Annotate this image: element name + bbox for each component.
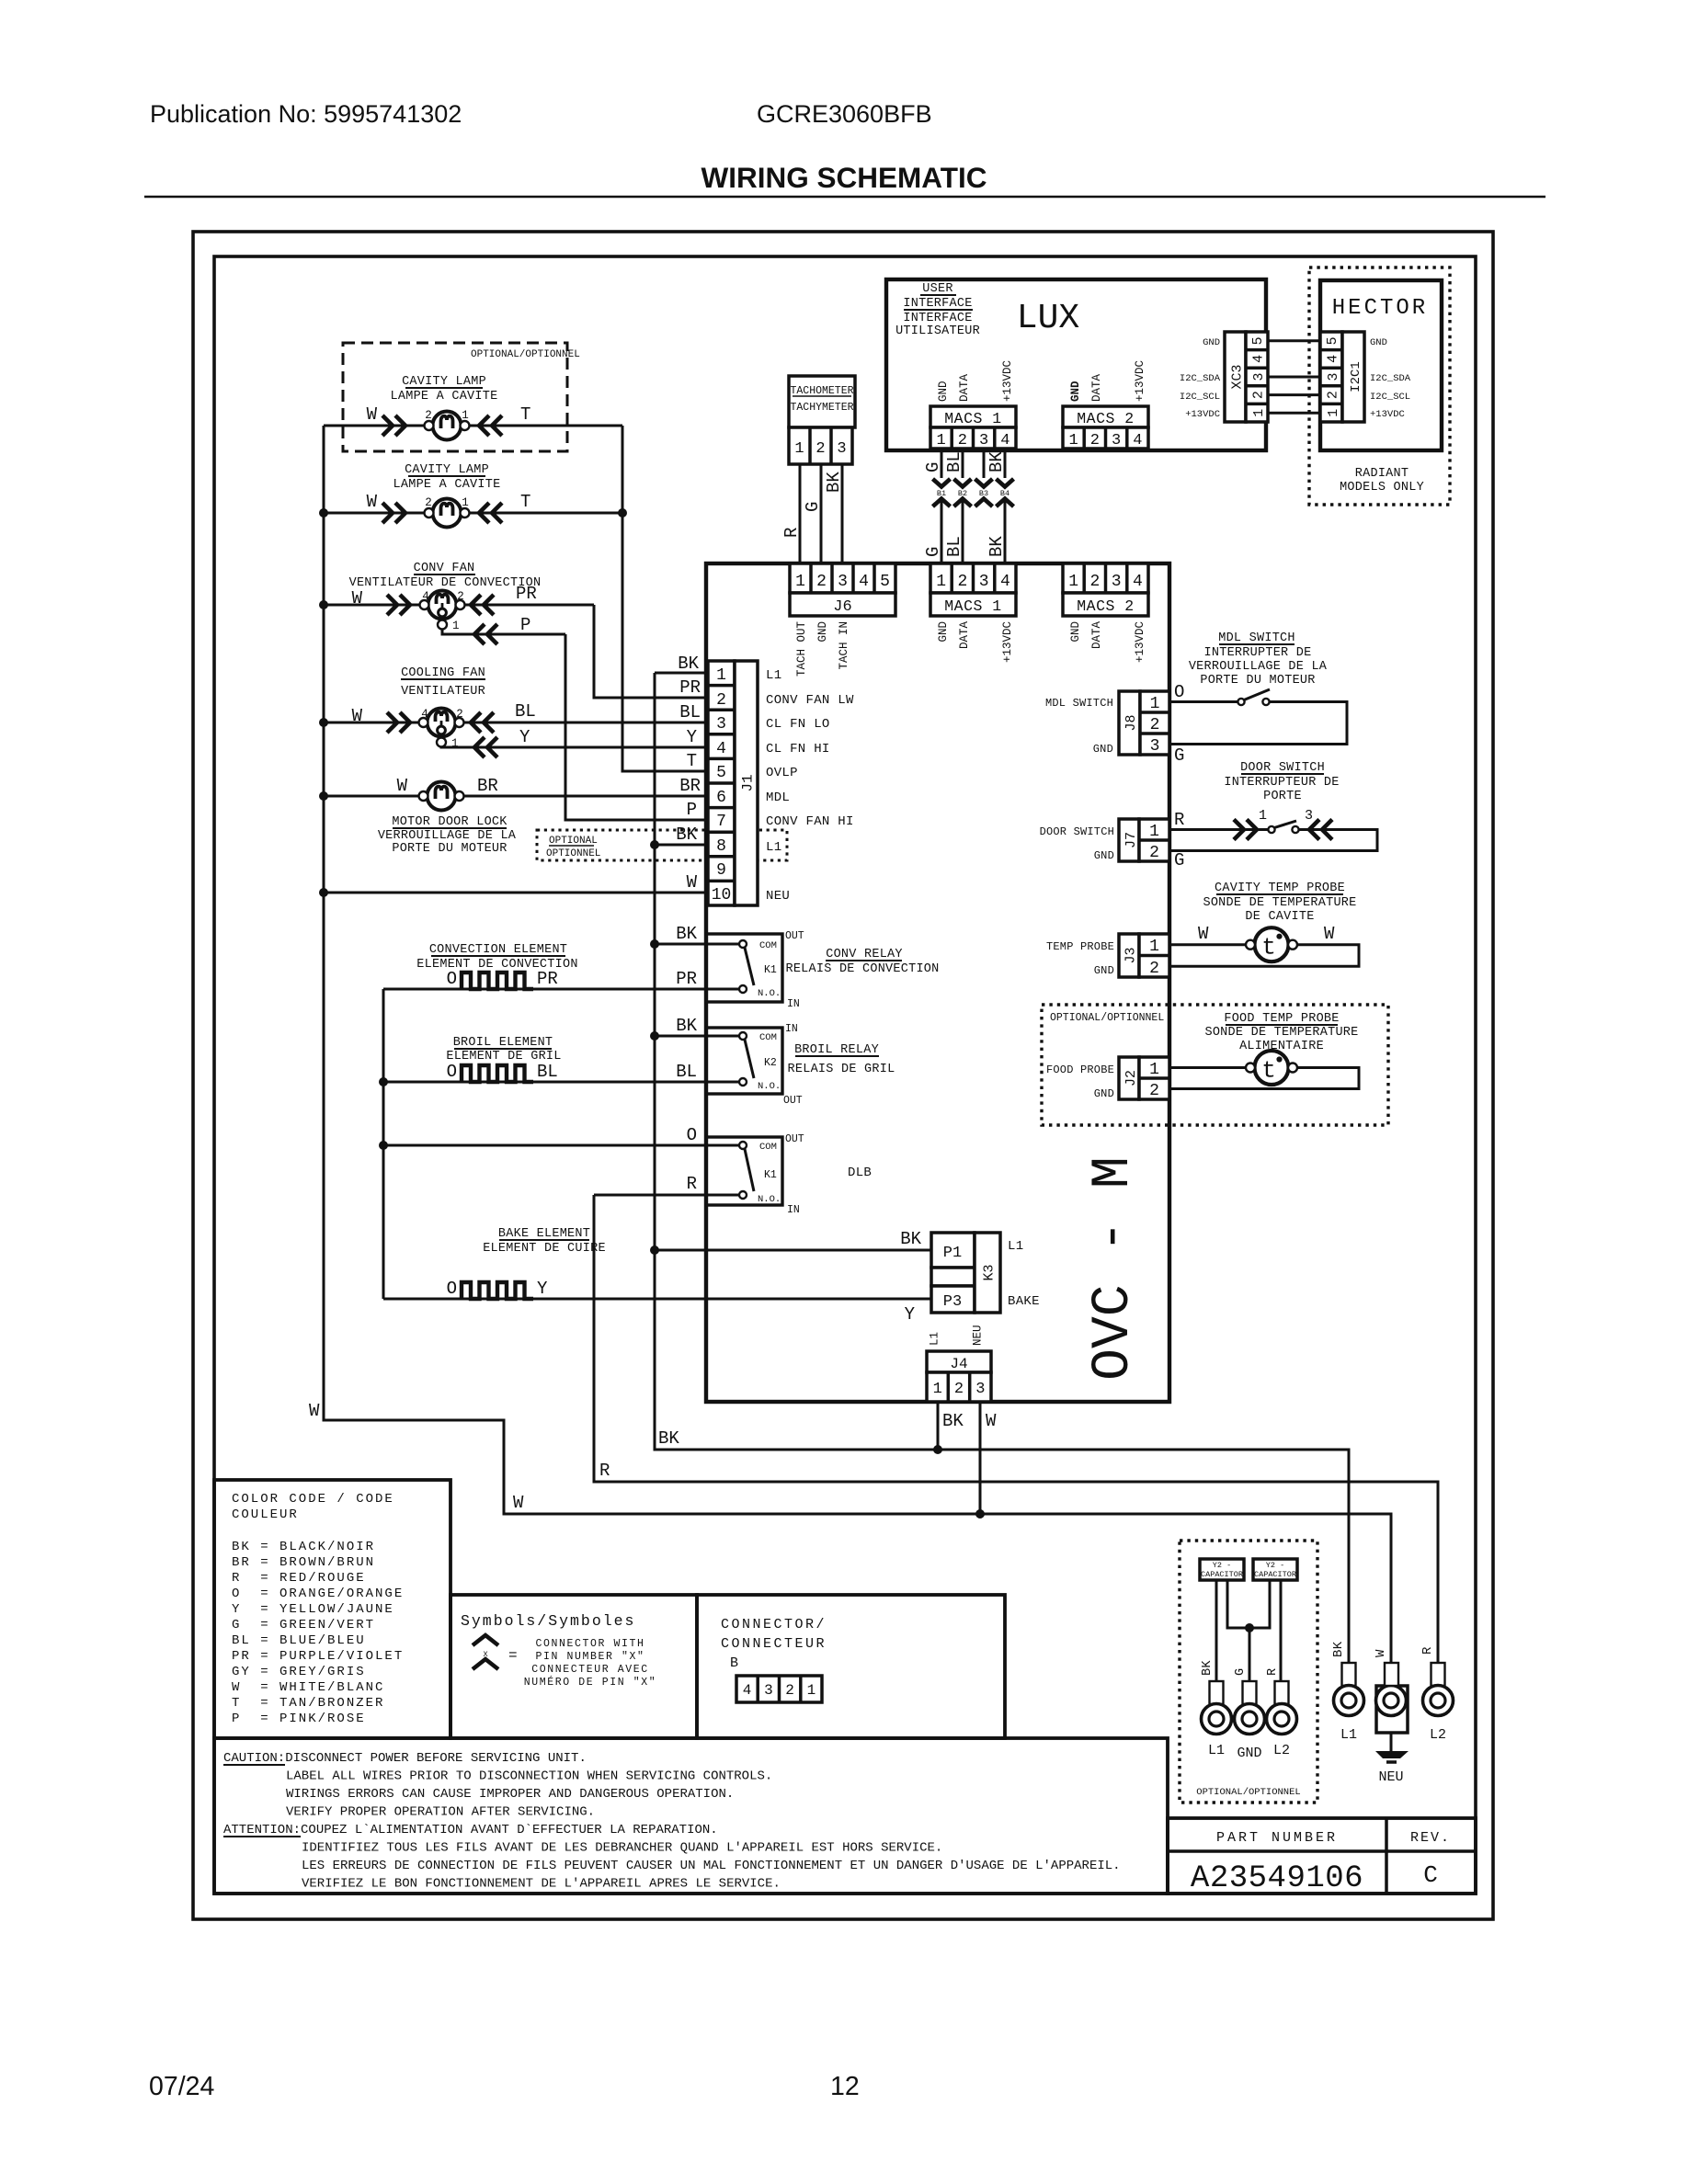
svg-text:1: 1 (1251, 409, 1267, 417)
node: T bus joins lamp2 (618, 508, 627, 518)
svg-text:OUT: OUT (785, 930, 804, 942)
ring terminal L1 (1334, 1663, 1364, 1743)
food probe optional dotted box (1042, 1005, 1388, 1125)
svg-text:G = GREEN/VERT: G = GREEN/VERT (232, 1618, 375, 1632)
bake element (447, 1279, 548, 1299)
svg-text:10: 10 (712, 886, 732, 904)
svg-text:NUMÉRO DE PIN "X": NUMÉRO DE PIN "X" (524, 1676, 657, 1689)
connector XC3 (1225, 332, 1268, 422)
svg-text:T: T (520, 492, 530, 512)
svg-text:HECTOR: HECTOR (1332, 296, 1428, 321)
cavity temp probe circuit (1169, 924, 1359, 966)
svg-text:MACS 2: MACS 2 (1077, 597, 1134, 615)
svg-text:4: 4 (1000, 573, 1010, 591)
svg-text:ATTENTION:COUPEZ L`ALIMENTATIO: ATTENTION:COUPEZ L`ALIMENTATION AVANT D`… (223, 1823, 718, 1837)
wire J4 pin1 BK drop (937, 1402, 940, 1450)
connector splice B2 (954, 479, 972, 506)
node: W bus joins conv fan (319, 600, 328, 609)
broil relay title (788, 1043, 895, 1076)
wire conv fan P lead (442, 625, 565, 634)
svg-text:6: 6 (716, 789, 726, 807)
svg-text:TACH OUT: TACH OUT (795, 621, 808, 677)
header rule (144, 196, 1545, 198)
svg-text:Y = YELLOW/JAUNE: Y = YELLOW/JAUNE (232, 1602, 394, 1617)
part number table (1168, 1818, 1476, 1896)
wire J4 pin3 W drop (979, 1402, 982, 1514)
svg-text:NEU: NEU (1378, 1769, 1403, 1785)
svg-text:GND: GND (1069, 621, 1082, 643)
svg-text:COLOR CODE / CODE: COLOR CODE / CODE (232, 1492, 394, 1507)
svg-text:P1: P1 (943, 1245, 962, 1262)
wires XC3 to I2C1 (1268, 341, 1320, 413)
connector J2 (1119, 1057, 1169, 1100)
svg-text:OUT: OUT (785, 1133, 804, 1145)
svg-text:K3: K3 (982, 1264, 998, 1280)
svg-text:DATA: DATA (958, 373, 971, 402)
svg-text:+13VDC: +13VDC (1370, 409, 1405, 420)
svg-text:BK: BK (824, 472, 844, 493)
svg-text:CONV FAN LW: CONV FAN LW (766, 693, 854, 708)
svg-text:OVC - M: OVC - M (1084, 1156, 1144, 1381)
svg-text:RELAIS DE CONVECTION: RELAIS DE CONVECTION (785, 962, 939, 976)
MACS1 lower pin labels (937, 621, 1014, 664)
inner border frame (214, 256, 1476, 1894)
svg-text:Publication No: 5995741302: Publication No: 5995741302 (150, 100, 462, 128)
connector J7 (1119, 819, 1169, 862)
svg-text:2: 2 (1250, 391, 1266, 399)
conv fan motor (352, 584, 537, 644)
symbols box (451, 1595, 697, 1738)
svg-text:3: 3 (716, 715, 726, 734)
capacitor Y2 no.1 (1200, 1559, 1244, 1580)
wire P drop to J1 pin7 (565, 634, 708, 820)
svg-text:Symbols/Symboles: Symbols/Symboles (461, 1612, 635, 1630)
svg-text:P = PINK/ROSE: P = PINK/ROSE (232, 1712, 366, 1726)
svg-text:Y: Y (687, 727, 698, 747)
svg-text:+13VDC: +13VDC (1134, 360, 1146, 402)
svg-text:GND: GND (937, 381, 950, 402)
svg-text:O: O (447, 1062, 457, 1082)
connector J6 (790, 563, 895, 616)
svg-text:MODELS ONLY: MODELS ONLY (1340, 481, 1424, 495)
svg-text:BROIL RELAY: BROIL RELAY (794, 1043, 879, 1057)
svg-text:I2C1: I2C1 (1349, 361, 1363, 392)
svg-text:USER: USER (922, 282, 952, 296)
svg-text:W: W (367, 492, 378, 512)
svg-text:W: W (367, 404, 378, 425)
svg-text:GND: GND (816, 621, 829, 643)
cavity lamp 1 title (391, 375, 498, 404)
MACS2 upper pin labels (1069, 360, 1146, 402)
connector I2C1 (1320, 332, 1364, 422)
wire cooling fan W + BL row (324, 722, 708, 724)
svg-text:LES ERREURS DE CONNECTION DE F: LES ERREURS DE CONNECTION DE FILS PEUVEN… (302, 1859, 1121, 1873)
svg-text:2: 2 (1089, 573, 1100, 591)
svg-text:A23549106: A23549106 (1191, 1861, 1363, 1896)
svg-text:8: 8 (716, 837, 726, 856)
svg-text:DATA: DATA (1090, 373, 1103, 402)
svg-text:2: 2 (957, 573, 967, 591)
svg-text:W: W (687, 872, 698, 893)
wire MACS1 splice pin3 (983, 449, 986, 478)
svg-text:W = WHITE/BLANC: W = WHITE/BLANC (232, 1680, 384, 1695)
svg-text:OPTIONNEL: OPTIONNEL (546, 848, 600, 859)
MACS2 lower pin labels (1069, 621, 1146, 664)
svg-text:CAVITY TEMP PROBE: CAVITY TEMP PROBE (1215, 882, 1345, 895)
J4 wire labels (942, 1411, 997, 1431)
svg-text:W: W (513, 1493, 524, 1513)
wire bake element row to K3 P3 (383, 1298, 931, 1301)
svg-text:OUT: OUT (783, 1095, 803, 1107)
svg-text:PR: PR (516, 584, 537, 604)
svg-text:2: 2 (785, 1682, 794, 1699)
svg-text:WIRING SCHEMATIC: WIRING SCHEMATIC (701, 161, 987, 194)
svg-text:+13VDC: +13VDC (1001, 621, 1014, 663)
svg-text:FOOD PROBE: FOOD PROBE (1046, 1064, 1114, 1076)
svg-text:TACHOMETER: TACHOMETER (790, 385, 853, 397)
svg-text:PIN NUMBER "X": PIN NUMBER "X" (535, 1651, 644, 1663)
wire conv relay COM BK (655, 943, 739, 946)
svg-text:2: 2 (1150, 716, 1160, 734)
svg-text:P: P (520, 615, 530, 635)
svg-text:CONNECTOR/: CONNECTOR/ (721, 1617, 827, 1632)
HECTOR dotted box (1309, 267, 1450, 505)
svg-text:X: X (483, 1650, 487, 1659)
svg-text:G: G (923, 462, 943, 472)
wires J6 to tachometer (800, 464, 842, 563)
svg-text:O: O (687, 1125, 697, 1145)
node: O bus to broil element (379, 1077, 388, 1086)
svg-text:W: W (309, 1401, 320, 1421)
conv relay wire labels (676, 924, 697, 989)
svg-text:Y2 -: Y2 - (1266, 1561, 1284, 1570)
J8 left labels (1045, 697, 1113, 756)
svg-text:BK = BLACK/NOIR: BK = BLACK/NOIR (232, 1540, 375, 1554)
svg-text:GND: GND (1094, 964, 1114, 977)
svg-text:J3: J3 (1123, 947, 1139, 963)
svg-text:5: 5 (880, 573, 890, 591)
tachometer box (789, 376, 855, 464)
svg-text:4: 4 (1133, 573, 1143, 591)
svg-text:RADIANT: RADIANT (1355, 467, 1409, 481)
svg-text:7: 7 (716, 813, 726, 831)
svg-text:1: 1 (936, 432, 945, 449)
svg-text:VERROUILLAGE DE LA: VERROUILLAGE DE LA (1189, 660, 1328, 674)
svg-text:1: 1 (716, 666, 726, 685)
svg-text:IN: IN (787, 1204, 800, 1216)
svg-text:1: 1 (794, 440, 804, 458)
broil element (447, 1062, 558, 1082)
wire MACS1 splice pin2 BL (962, 449, 964, 563)
wire PR drop to J1 pin2 (594, 605, 708, 698)
wire W neutral bus (left vertical) (324, 426, 1391, 1664)
svg-text:5: 5 (716, 764, 726, 782)
wire W bus to lamp1 (324, 425, 622, 427)
svg-text:J6: J6 (833, 598, 851, 616)
wire convection element row (383, 988, 739, 991)
svg-text:R: R (687, 1174, 697, 1194)
svg-text:IN: IN (787, 998, 800, 1010)
wire cooling fan Y lead (441, 742, 708, 747)
svg-text:BROIL ELEMENT: BROIL ELEMENT (453, 1036, 553, 1050)
svg-text:+13VDC: +13VDC (1134, 621, 1146, 663)
svg-text:RELAIS DE GRIL: RELAIS DE GRIL (788, 1063, 895, 1076)
svg-text:G: G (803, 502, 823, 512)
J3 left labels (1046, 940, 1114, 977)
svg-text:LABEL ALL WIRES PRIOR TO DISCO: LABEL ALL WIRES PRIOR TO DISCONNECTION W… (286, 1769, 772, 1784)
svg-text:ALIMENTAIRE: ALIMENTAIRE (1239, 1040, 1324, 1053)
svg-text:G: G (1174, 745, 1184, 766)
outer border frame (193, 232, 1493, 1919)
wire motor door lock row (324, 795, 708, 798)
svg-text:LUX: LUX (1017, 299, 1080, 338)
broil relay wire labels (676, 1016, 697, 1082)
svg-text:L2: L2 (1273, 1743, 1290, 1758)
svg-text:B: B (730, 1655, 741, 1671)
svg-text:L1: L1 (1340, 1727, 1357, 1743)
svg-text:4: 4 (859, 573, 869, 591)
connector J3 (1119, 934, 1169, 978)
svg-text:T: T (520, 404, 530, 425)
svg-text:2: 2 (815, 440, 825, 458)
svg-text:VERROUILLAGE DE LA: VERROUILLAGE DE LA (378, 829, 517, 843)
svg-text:INTERFACE: INTERFACE (903, 297, 972, 311)
svg-text:TACHYMETER: TACHYMETER (790, 402, 853, 414)
radiant models note (1340, 467, 1424, 495)
svg-text:MOTOR DOOR LOCK: MOTOR DOOR LOCK (392, 815, 508, 829)
node: BK bus to conv relay (650, 939, 659, 949)
wire K3 P1 BK (655, 1249, 931, 1252)
svg-text:T = TAN/BRONZER: T = TAN/BRONZER (232, 1696, 384, 1711)
svg-text:2: 2 (1149, 960, 1159, 978)
wire J1 pin10 W (324, 892, 708, 894)
svg-text:1: 1 (1326, 409, 1341, 417)
cooling fan title (401, 666, 485, 699)
svg-text:MDL: MDL (766, 791, 790, 805)
svg-text:GND: GND (1094, 1087, 1114, 1100)
svg-text:MACS 1: MACS 1 (944, 410, 1001, 427)
svg-text:L2: L2 (1430, 1727, 1446, 1743)
svg-text:1: 1 (451, 737, 459, 750)
svg-text:DE CAVITE: DE CAVITE (1245, 910, 1314, 924)
svg-text:DLB: DLB (848, 1166, 872, 1180)
svg-text:GND: GND (1370, 337, 1387, 348)
svg-text:COM: COM (759, 1142, 777, 1153)
svg-text:3: 3 (1112, 573, 1122, 591)
svg-text:COOLING FAN: COOLING FAN (401, 666, 485, 680)
svg-text:O = ORANGE/ORANGE: O = ORANGE/ORANGE (232, 1587, 404, 1601)
J6 under-board pin labels (795, 621, 850, 677)
optional dashed box around cavity lamp 1 (343, 343, 567, 451)
svg-text:CL FN LO: CL FN LO (766, 717, 830, 732)
svg-text:GND: GND (1094, 849, 1114, 862)
svg-text:PORTE DU MOTEUR: PORTE DU MOTEUR (392, 842, 507, 856)
cavity lamp 1 (367, 404, 531, 440)
R bus from DLB to L2 ring (594, 1195, 1438, 1664)
svg-text:R: R (781, 528, 802, 538)
cooling fan motor (352, 701, 536, 757)
svg-text:VERIFY PROPER OPERATION AFTER: VERIFY PROPER OPERATION AFTER SERVICING. (286, 1805, 595, 1820)
K3 labels (900, 1229, 1040, 1325)
rotated labels on power drops (1331, 1641, 1435, 1657)
svg-text:1: 1 (452, 620, 460, 632)
wire DLB COM O (383, 1144, 739, 1147)
broil relay K2 (706, 1023, 803, 1107)
svg-text:GND: GND (937, 621, 950, 643)
wire broil relay COM BK (655, 1035, 739, 1038)
mdl switch circuit (1169, 682, 1347, 766)
svg-text:INTERRUPTEUR DE: INTERRUPTEUR DE (1224, 776, 1339, 790)
svg-text:2: 2 (457, 590, 464, 603)
wire DLB NO R (594, 1194, 739, 1197)
svg-text:Y: Y (537, 1279, 548, 1299)
svg-text:GND: GND (1237, 1746, 1261, 1761)
svg-text:J1: J1 (740, 774, 757, 791)
svg-text:4: 4 (1133, 432, 1142, 449)
J1 left wire labels (676, 654, 701, 893)
svg-text:B4: B4 (1000, 489, 1009, 498)
svg-text:P: P (687, 800, 697, 820)
svg-text:COULEUR: COULEUR (232, 1507, 299, 1522)
DLB wire labels (687, 1125, 697, 1194)
svg-text:GND: GND (1093, 743, 1113, 756)
svg-text:I2C_SCL: I2C_SCL (1370, 392, 1410, 403)
OVC-M board outline (706, 563, 1169, 1402)
bake element title (483, 1227, 606, 1256)
node: O bus to DLB (379, 1141, 388, 1150)
connector MACS2 upper (1063, 406, 1148, 449)
food temp probe title (1204, 1012, 1358, 1053)
node: BK bus to broil relay (650, 1031, 659, 1041)
svg-text:BAKE: BAKE (1008, 1294, 1040, 1309)
svg-text:BL: BL (944, 536, 964, 557)
wire MACS1 splice pin4 BK (1004, 449, 1007, 563)
svg-text:BK: BK (676, 924, 697, 944)
svg-text:L1: L1 (766, 840, 781, 855)
svg-text:2: 2 (1149, 844, 1159, 862)
svg-text:GND: GND (1069, 381, 1082, 402)
svg-text:CONNECTEUR AVEC: CONNECTEUR AVEC (531, 1664, 649, 1676)
svg-text:BK: BK (942, 1411, 964, 1431)
broil element title (446, 1036, 561, 1064)
svg-text:CL FN HI: CL FN HI (766, 742, 830, 756)
node: BK bus joins pin8 wire (650, 840, 659, 849)
svg-text:DATA: DATA (958, 621, 971, 650)
svg-text:2: 2 (1090, 432, 1100, 449)
svg-text:COM: COM (759, 1032, 777, 1043)
svg-text:5: 5 (1325, 336, 1340, 345)
terminal NEU block (1375, 1663, 1409, 1785)
svg-text:O: O (447, 969, 457, 989)
connector MACS1 lower (930, 563, 1016, 616)
svg-text:R: R (1420, 1646, 1435, 1655)
svg-text:CAVITY LAMP: CAVITY LAMP (402, 375, 486, 389)
svg-text:J2: J2 (1123, 1070, 1139, 1086)
svg-text:J8: J8 (1123, 714, 1139, 731)
svg-text:OVLP: OVLP (766, 766, 798, 780)
color code box (214, 1480, 451, 1738)
svg-text:PR: PR (537, 969, 558, 989)
svg-text:GND: GND (1203, 337, 1220, 348)
BK bus vertical + bottom run to L1 ring (655, 673, 1349, 1664)
svg-text:1: 1 (462, 409, 469, 422)
svg-text:MACS 2: MACS 2 (1077, 410, 1134, 427)
wire lamp2 row (324, 512, 622, 515)
conv relay K1 (706, 930, 804, 1010)
svg-text:1: 1 (1150, 695, 1160, 713)
wire conv fan W + PR row (324, 604, 594, 607)
svg-text:SONDE DE TEMPERATURE: SONDE DE TEMPERATURE (1204, 1026, 1358, 1040)
svg-text:G: G (1234, 1668, 1248, 1676)
svg-text:J7: J7 (1123, 832, 1139, 848)
svg-text:BK: BK (987, 536, 1007, 557)
conv fan title (349, 562, 542, 590)
svg-text:3: 3 (764, 1682, 773, 1699)
capacitor wire labels (1201, 1660, 1280, 1676)
svg-text:1: 1 (1149, 938, 1159, 956)
conv relay title (785, 948, 939, 976)
svg-text:2: 2 (456, 708, 463, 721)
svg-text:1: 1 (1259, 808, 1267, 824)
svg-text:CAVITY LAMP: CAVITY LAMP (405, 463, 489, 477)
svg-text:CONVECTION ELEMENT: CONVECTION ELEMENT (429, 943, 567, 957)
svg-text:CAPACITOR: CAPACITOR (1254, 1570, 1296, 1579)
cavity temp probe title (1203, 882, 1356, 924)
svg-text:BK: BK (1201, 1660, 1215, 1676)
svg-text:N.O.: N.O. (758, 1081, 781, 1092)
svg-text:4: 4 (422, 590, 429, 603)
node: J4 W joins W run (975, 1509, 985, 1519)
connector B box (697, 1595, 1005, 1738)
connector splice B1 (933, 479, 951, 506)
svg-text:2: 2 (1149, 1082, 1159, 1100)
svg-text:I2C_SCL: I2C_SCL (1180, 392, 1220, 403)
svg-text:L1: L1 (766, 668, 781, 683)
svg-text:BL: BL (515, 701, 536, 722)
svg-text:DOOR SWITCH: DOOR SWITCH (1240, 761, 1325, 775)
optional dotted box around J1 pin8 (537, 830, 787, 860)
element O bus vertical (382, 989, 385, 1299)
MACS1 upper pin labels (937, 360, 1014, 402)
svg-text:N.O.: N.O. (758, 1194, 781, 1205)
svg-text:BL: BL (944, 451, 964, 472)
svg-text:B2: B2 (958, 489, 967, 498)
svg-text:4: 4 (1251, 355, 1267, 363)
svg-text:SONDE DE TEMPERATURE: SONDE DE TEMPERATURE (1203, 896, 1356, 910)
ring terminal L2 (optional) (1267, 1681, 1297, 1758)
svg-text:BAKE ELEMENT: BAKE ELEMENT (498, 1227, 590, 1241)
svg-text:1: 1 (795, 573, 805, 591)
svg-text:3: 3 (979, 573, 989, 591)
J4 top labels (929, 1325, 985, 1346)
svg-text:FOOD TEMP PROBE: FOOD TEMP PROBE (1224, 1012, 1339, 1026)
svg-text:TACH IN: TACH IN (838, 621, 850, 670)
node: W bus joins J1 pin10 wire (319, 888, 328, 897)
connector J8 (1119, 691, 1169, 756)
svg-text:VENTILATEUR: VENTILATEUR (401, 685, 485, 699)
svg-text:GY = GREY/GRIS: GY = GREY/GRIS (232, 1665, 366, 1679)
svg-text:MDL SWITCH: MDL SWITCH (1218, 631, 1295, 645)
svg-text:BL = BLUE/BLEU: BL = BLUE/BLEU (232, 1633, 366, 1648)
svg-text:PORTE DU MOTEUR: PORTE DU MOTEUR (1200, 674, 1315, 688)
svg-text:K2: K2 (764, 1057, 777, 1069)
svg-text:ELEMENT DE CUIRE: ELEMENT DE CUIRE (483, 1242, 606, 1256)
node: W bus joins lamp2 (319, 508, 328, 518)
svg-text:=: = (508, 1647, 518, 1664)
wire MACS1 splice pin1 G (941, 449, 943, 563)
wire T bus to J1 pin5 (622, 426, 708, 771)
splice wire labels lower (923, 536, 1007, 557)
